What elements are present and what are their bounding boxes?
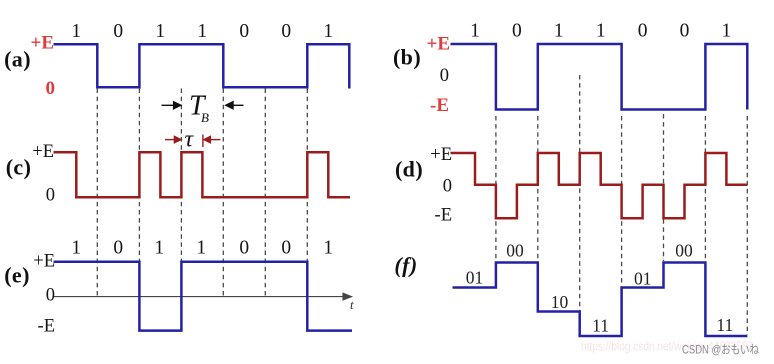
svg-text:00: 00 [506, 241, 524, 261]
bit labels row (e) [71, 238, 333, 259]
svg-text:B: B [201, 110, 209, 125]
svg-text:+E: +E [32, 142, 54, 162]
TB measure arrows [162, 102, 244, 109]
svg-text:0: 0 [512, 21, 522, 42]
svg-text:(b): (b) [393, 45, 421, 70]
time axis of (e) with arrow [54, 293, 352, 300]
svg-text:0: 0 [281, 238, 291, 259]
bit labels row (a) [71, 21, 333, 42]
svg-text:+E: +E [31, 33, 55, 54]
svg-text:1: 1 [323, 238, 333, 259]
svg-text:(e): (e) [4, 263, 30, 288]
tau measure arrows (red) [165, 135, 221, 148]
svg-text:0: 0 [281, 21, 291, 42]
svg-text:1: 1 [196, 238, 206, 259]
svg-text:(d): (d) [395, 157, 423, 182]
svg-text:(c): (c) [6, 155, 32, 180]
svg-text:-E: -E [430, 95, 449, 116]
bit labels row (b) [470, 21, 731, 42]
svg-text:0: 0 [113, 21, 123, 42]
svg-text:0: 0 [638, 21, 648, 42]
svg-text:11: 11 [716, 315, 733, 335]
waveform (b) polar NRZ [451, 44, 748, 110]
svg-text:-E: -E [435, 206, 452, 226]
svg-text:00: 00 [675, 241, 693, 261]
waveform (f) 4-level 2B1Q [453, 263, 748, 337]
svg-text:1: 1 [323, 21, 333, 42]
dashed bit boundaries right column [496, 75, 747, 335]
svg-text:1: 1 [154, 238, 164, 259]
svg-text:(f): (f) [394, 253, 417, 278]
svg-text:01: 01 [466, 268, 484, 288]
svg-text:01: 01 [634, 269, 652, 289]
svg-text:11: 11 [592, 316, 609, 336]
svg-text:+E: +E [427, 34, 451, 55]
waveform (d) bipolar RZ [451, 153, 748, 218]
waveform (a) unipolar NRZ [54, 44, 350, 88]
svg-text:0: 0 [46, 186, 55, 206]
svg-text:1: 1 [554, 21, 564, 42]
waveform (e) differential NRZ [54, 262, 353, 331]
svg-text:1: 1 [197, 21, 207, 42]
svg-text:τ: τ [185, 127, 195, 153]
svg-text:1: 1 [596, 21, 606, 42]
svg-text:0: 0 [46, 286, 55, 306]
svg-text:1: 1 [71, 21, 81, 42]
waveform (c) unipolar RZ [54, 152, 351, 197]
svg-text:0: 0 [440, 66, 449, 86]
svg-text:0: 0 [239, 238, 249, 259]
svg-text:0: 0 [443, 177, 452, 197]
svg-text:-E: -E [38, 317, 55, 337]
svg-text:0: 0 [113, 238, 123, 259]
svg-text:+E: +E [33, 252, 55, 272]
dashed bit boundaries left column [97, 89, 307, 296]
svg-text:1: 1 [470, 21, 480, 42]
svg-text:+E: +E [430, 145, 452, 165]
svg-text:CSDN @おもいね: CSDN @おもいね [682, 343, 759, 357]
svg-text:0: 0 [239, 21, 249, 42]
svg-text:10: 10 [551, 292, 569, 312]
svg-text:0: 0 [680, 21, 690, 42]
svg-text:(a): (a) [4, 47, 31, 72]
svg-text:0: 0 [46, 78, 56, 99]
svg-text:1: 1 [71, 238, 81, 259]
svg-text:t: t [350, 297, 354, 312]
svg-text:1: 1 [155, 21, 165, 42]
svg-text:1: 1 [722, 21, 732, 42]
